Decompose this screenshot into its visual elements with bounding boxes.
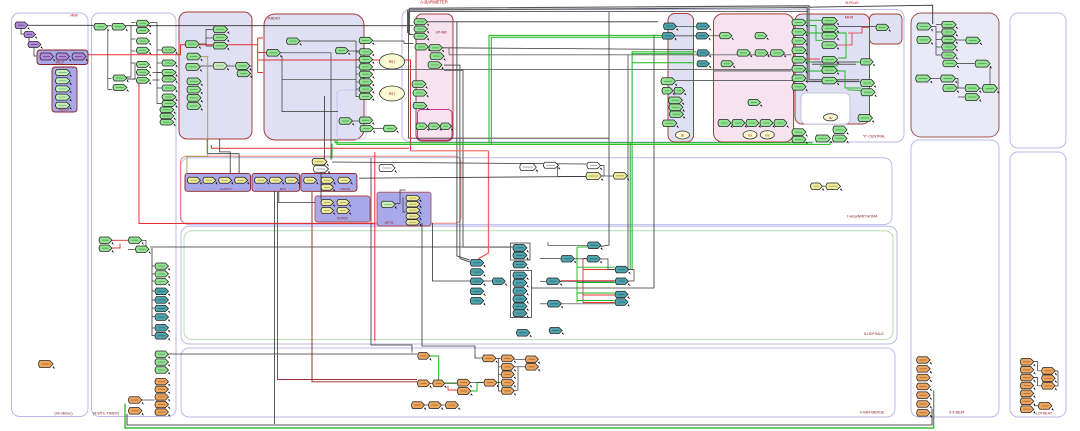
svg-text:HMI: HMI [70, 13, 77, 18]
svg-text:rxx: rxx [765, 133, 770, 137]
svg-text:8-HDFSALE: 8-HDFSALE [864, 332, 884, 336]
svg-text:(4-WTC-TIMER): (4-WTC-TIMER) [93, 412, 119, 416]
svg-text:BUS: BUS [280, 187, 286, 191]
svg-text:RST: RST [389, 92, 395, 96]
svg-text:9-VAR-MERGE: 9-VAR-MERGE [860, 411, 885, 415]
svg-text:"0"-CENTRAL: "0"-CENTRAL [863, 135, 886, 139]
svg-text:UP-WB: UP-WB [435, 31, 447, 35]
svg-text:LOTREAT: LOTREAT [1036, 412, 1053, 416]
svg-text:TETRIS: TETRIS [336, 217, 347, 221]
svg-text:RST: RST [389, 60, 395, 64]
svg-text:A-BARMETER: A-BARMETER [420, 0, 447, 5]
svg-text:6-9-BEAT: 6-9-BEAT [949, 411, 965, 415]
svg-text:TRACE: TRACE [340, 187, 350, 191]
svg-text:ck: ck [829, 116, 833, 120]
svg-text:HELP: HELP [56, 61, 64, 65]
svg-text:ABOUT: ABOUT [59, 108, 70, 112]
svg-text:rxx: rxx [748, 133, 753, 137]
svg-text:B-PLUS: B-PLUS [846, 1, 860, 5]
svg-text:(49-clktree): (49-clktree) [54, 412, 72, 416]
svg-text:OPTS: OPTS [385, 221, 394, 225]
svg-text:MHX: MHX [845, 16, 854, 20]
svg-text:CLARITY: CLARITY [220, 187, 233, 191]
svg-text:ck: ck [681, 134, 685, 138]
svg-text:7-AGallWRTHOMA: 7-AGallWRTHOMA [847, 215, 878, 219]
svg-text:RADIO: RADIO [268, 17, 280, 21]
